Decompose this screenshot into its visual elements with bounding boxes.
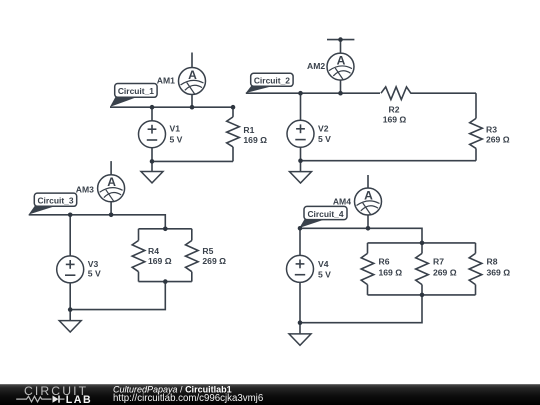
value label R3 / 269 Ω: [486, 124, 510, 144]
svg-text:V4: V4: [318, 259, 329, 269]
value label R8 / 369 Ω: [487, 257, 511, 278]
svg-text:5 V: 5 V: [318, 134, 331, 144]
junction (parallel top node, circuit 3): [163, 227, 168, 232]
svg-text:R7: R7: [433, 257, 444, 267]
junction (V2 bottom / ground node): [298, 158, 303, 163]
wire: parallel top bar (circuit 3): [139, 228, 192, 230]
value label R1 / 169 Ω: [243, 125, 267, 145]
ammeter AM4: [355, 188, 382, 228]
junction (AM1 bottom node): [190, 105, 195, 110]
svg-text:R5: R5: [202, 246, 213, 256]
value label V1 / 5 V: [170, 124, 183, 145]
node flag Circuit_4: [299, 206, 347, 228]
svg-text:169 Ω: 169 Ω: [243, 135, 267, 145]
svg-text:269 Ω: 269 Ω: [486, 135, 510, 145]
svg-text:Circuit_1: Circuit_1: [118, 86, 154, 96]
junction (AM4 bottom node): [366, 226, 371, 231]
svg-text:AM1: AM1: [157, 75, 175, 85]
label AM4: [333, 196, 351, 206]
voltage source V4: [287, 228, 314, 322]
voltage source V1: [139, 107, 166, 161]
wire: circuit 2 bottom horizontal net: [301, 160, 477, 162]
svg-text:R4: R4: [148, 246, 159, 256]
junction (V2 top node): [298, 91, 303, 96]
wire: circuit 2 top net (left of R2): [246, 92, 380, 94]
ground (circuit 2): [290, 161, 312, 183]
junction (parallel bottom node, circuit 3): [163, 279, 168, 284]
svg-text:169 Ω: 169 Ω: [148, 256, 172, 266]
svg-text:269 Ω: 269 Ω: [433, 267, 457, 277]
svg-text:R1: R1: [243, 125, 254, 135]
svg-text:R2: R2: [389, 105, 400, 115]
svg-text:Circuit_4: Circuit_4: [307, 209, 343, 219]
wire: AM2 top bar: [327, 39, 354, 41]
resistor R5: [186, 229, 199, 282]
wire: circuit 4 top net with right drop: [299, 228, 422, 243]
logo resistor-diode glyph: [16, 396, 64, 403]
wire: parallel bottom bar (circuit 4): [368, 294, 476, 296]
wire: AM4 top open stub: [367, 175, 369, 188]
svg-text:R8: R8: [487, 257, 498, 267]
footer bar: [0, 384, 540, 405]
label AM1: [157, 75, 175, 85]
junction (V3 bottom / ground node): [68, 307, 73, 312]
svg-text:AM3: AM3: [76, 185, 94, 195]
resistor R7: [416, 243, 429, 295]
footer url text: [113, 393, 263, 404]
svg-text:5 V: 5 V: [318, 269, 331, 279]
wire: circuit 1 top horizontal net: [110, 106, 233, 108]
wire: AM1 top open stub: [191, 53, 193, 68]
value label V4 / 5 V: [318, 259, 331, 280]
svg-text:http://circuitlab.com/c996cjka: http://circuitlab.com/c996cjka3vmj6: [113, 393, 263, 404]
svg-text:AM2: AM2: [307, 61, 325, 71]
node flag Circuit_2: [246, 73, 293, 93]
junction (V3 top node): [68, 213, 73, 218]
junction (V1 bottom / ground node): [150, 159, 155, 164]
junction (AM2 top bar node): [338, 37, 343, 42]
node flag Circuit_1: [110, 84, 157, 107]
logo LAB: [66, 394, 93, 405]
svg-text:V2: V2: [318, 124, 329, 134]
value label R6 / 169 Ω: [379, 257, 403, 278]
resistor R1: [227, 107, 240, 161]
wire: parallel bottom bar (circuit 3): [139, 281, 192, 283]
resistor R3: [470, 93, 483, 161]
svg-text:AM4: AM4: [333, 196, 351, 206]
value label V3 / 5 V: [88, 259, 101, 279]
value label R4 / 169 Ω: [148, 246, 172, 266]
wire: circuit 2 top net (right of R2): [410, 92, 476, 94]
resistor R4: [132, 229, 145, 282]
junction (AM2 bottom node): [338, 91, 343, 96]
svg-text:5 V: 5 V: [170, 134, 183, 144]
resistor R2 (horizontal): [381, 87, 411, 100]
value label R5 / 269 Ω: [202, 246, 226, 266]
svg-text:R3: R3: [486, 124, 497, 134]
junction (V4 top / flag node): [298, 226, 303, 231]
wire: parallel combo to bottom net (circuit 4): [300, 295, 422, 323]
junction (parallel bottom node, circuit 4): [420, 293, 425, 298]
svg-text:LAB: LAB: [66, 394, 93, 405]
svg-text:5 V: 5 V: [88, 269, 101, 279]
label AM3: [76, 185, 94, 195]
footer title text: [113, 385, 232, 395]
svg-text:Circuit_3: Circuit_3: [37, 196, 73, 206]
junction (AM3 bottom node): [109, 213, 114, 218]
resistor R6: [361, 243, 374, 295]
logo CIRCUIT: [24, 384, 88, 398]
junction (V1 top node): [150, 105, 155, 110]
value label R2 / 169 Ω: [383, 105, 407, 125]
voltage source V3: [57, 215, 84, 310]
wire: circuit 1 bottom horizontal net: [152, 160, 233, 162]
junction (R1 top node): [231, 105, 236, 110]
wire: parallel top bar (circuit 4): [368, 242, 476, 244]
ground (circuit 3): [59, 310, 81, 332]
svg-text:269 Ω: 269 Ω: [202, 256, 226, 266]
wire: circuit 3 top net with right drop: [29, 215, 166, 229]
svg-text:V1: V1: [170, 124, 181, 134]
ammeter AM3: [98, 175, 125, 215]
value label V2 / 5 V: [318, 124, 331, 144]
label AM2: [307, 61, 325, 71]
svg-text:169 Ω: 169 Ω: [383, 115, 407, 125]
value label R7 / 269 Ω: [433, 257, 457, 278]
resistor R8: [469, 243, 482, 295]
ammeter AM2: [327, 40, 354, 94]
svg-text:369 Ω: 369 Ω: [487, 267, 511, 277]
junction (parallel top node, circuit 4): [420, 241, 425, 246]
ammeter AM1: [179, 68, 206, 108]
wire: parallel combo to bottom net: [70, 282, 165, 310]
svg-text:Circuit_2: Circuit_2: [254, 76, 290, 86]
svg-text:V3: V3: [88, 259, 99, 269]
svg-text:R6: R6: [379, 257, 390, 267]
ground (circuit 1): [141, 161, 163, 183]
junction (V4 bottom / ground node): [298, 320, 303, 325]
node flag Circuit_3: [29, 193, 77, 214]
voltage source V2: [287, 93, 314, 161]
wire: AM3 top open stub: [110, 161, 112, 175]
ground (circuit 4): [289, 323, 311, 346]
svg-text:169 Ω: 169 Ω: [379, 267, 403, 277]
